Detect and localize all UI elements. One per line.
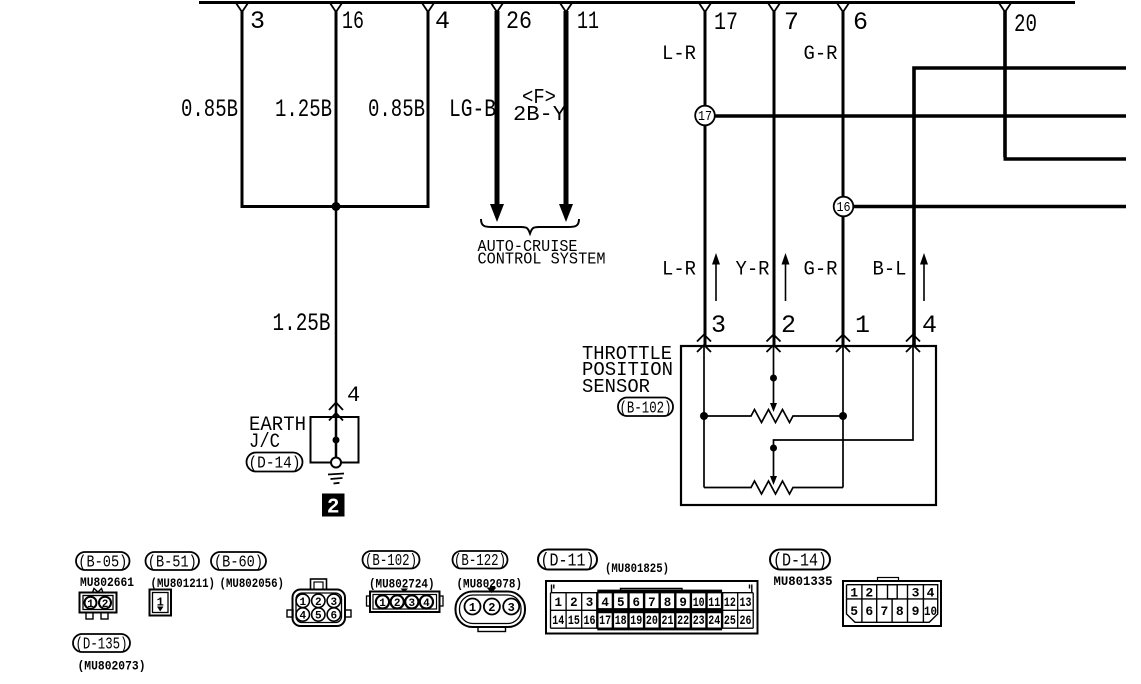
direction arrow wire 3 xyxy=(712,253,720,301)
label L-R (lower) xyxy=(662,259,696,282)
connector view B-51 xyxy=(150,590,172,616)
junction dot pin1-resistor xyxy=(839,412,847,420)
wire B-L from right edge down to sensor pin 4 xyxy=(914,66,1126,346)
wire pin 4 (0.85B) xyxy=(427,11,430,208)
connector fork pin 6 xyxy=(837,3,849,12)
connector fork pin 4 xyxy=(422,3,434,12)
label D-135 stadium xyxy=(73,634,130,655)
text MU801335 xyxy=(774,575,833,589)
label Y-R (lower) xyxy=(736,259,770,282)
text MU802073 xyxy=(78,660,146,674)
text MU801211 xyxy=(151,577,216,591)
svg-text:J/C: J/C xyxy=(249,431,280,454)
svg-text:1: 1 xyxy=(87,599,94,611)
svg-text:3: 3 xyxy=(250,7,265,36)
svg-text:6: 6 xyxy=(865,604,873,619)
label B-51 stadium xyxy=(146,552,200,573)
junction dot at wire 16 xyxy=(332,202,341,211)
svg-text:1: 1 xyxy=(379,598,386,610)
label B-122 stadium xyxy=(453,551,508,571)
label B-60 stadium xyxy=(211,552,266,573)
svg-text:G-R: G-R xyxy=(804,43,838,66)
sensor wire pin 4 to wiper R2 xyxy=(770,346,913,485)
svg-text:2: 2 xyxy=(865,586,873,601)
label D-14 stadium (bottom row) xyxy=(770,550,830,572)
earth terminal circle xyxy=(331,458,341,468)
label L-R (upper) xyxy=(662,43,696,66)
svg-text:Y-R: Y-R xyxy=(736,259,770,282)
svg-text:0.85B: 0.85B xyxy=(368,95,425,124)
svg-text:(B-60): (B-60) xyxy=(214,554,263,573)
svg-text:3: 3 xyxy=(586,596,594,610)
svg-text:5: 5 xyxy=(617,596,625,610)
svg-text:1: 1 xyxy=(555,596,563,610)
svg-text:4: 4 xyxy=(435,7,450,36)
svg-text:7: 7 xyxy=(648,596,656,610)
svg-text:1: 1 xyxy=(469,601,476,615)
svg-text:(B-51): (B-51) xyxy=(148,554,197,573)
svg-text:17: 17 xyxy=(698,110,712,125)
pin numbers D-14 xyxy=(850,586,937,620)
svg-text:MU802661: MU802661 xyxy=(80,576,134,590)
svg-text:7: 7 xyxy=(784,8,799,37)
svg-text:15: 15 xyxy=(568,614,580,628)
svg-text:1: 1 xyxy=(299,597,306,609)
label B-L (lower) xyxy=(873,259,907,282)
svg-text:10: 10 xyxy=(693,596,705,610)
svg-text:3: 3 xyxy=(711,311,726,340)
svg-text:6: 6 xyxy=(853,8,868,37)
sensor wire pin 3 internal xyxy=(703,346,705,488)
svg-text:B-L: B-L xyxy=(873,259,907,282)
arrowhead wire 11 xyxy=(559,204,573,222)
wire pin 17 (L-R) xyxy=(704,11,707,346)
connector chevrons into earth J/C xyxy=(329,403,343,421)
svg-text:6: 6 xyxy=(330,611,337,623)
svg-text:1: 1 xyxy=(855,311,870,340)
svg-text:3: 3 xyxy=(508,601,515,615)
text MU802661 xyxy=(80,576,134,590)
earth J/C box D-14 xyxy=(311,417,359,463)
svg-text:4: 4 xyxy=(347,383,360,408)
bold wire pin 11 (2B-Y) to auto-cruise xyxy=(564,11,569,206)
svg-text:3: 3 xyxy=(912,586,920,601)
text MU802078 xyxy=(457,578,523,592)
circled junction 16 xyxy=(834,197,854,217)
connector view D-11 xyxy=(546,581,758,634)
svg-text:L-R: L-R xyxy=(662,259,696,282)
svg-text:2: 2 xyxy=(327,497,340,520)
direction arrow wire 4 xyxy=(920,253,928,301)
svg-text:(MU802073): (MU802073) xyxy=(78,660,146,674)
svg-text:4: 4 xyxy=(601,596,609,610)
svg-text:10: 10 xyxy=(924,604,937,619)
pin numbers D-11 row 2 xyxy=(552,614,751,628)
sensor pin number 3 xyxy=(711,311,726,340)
svg-text:2: 2 xyxy=(488,601,495,615)
svg-text:(D-14): (D-14) xyxy=(249,455,301,474)
svg-text:24: 24 xyxy=(708,614,720,628)
svg-text:4: 4 xyxy=(927,586,935,601)
text POSITION xyxy=(582,359,673,381)
svg-text:17: 17 xyxy=(599,614,611,628)
svg-text:2: 2 xyxy=(315,597,322,609)
svg-text:4: 4 xyxy=(299,611,306,623)
label 1.25B (earth wire) xyxy=(273,309,331,338)
svg-text:(B-102): (B-102) xyxy=(620,400,672,419)
top bus wire xyxy=(199,1,1075,4)
label B-102 stadium (bottom row) xyxy=(363,551,420,571)
sensor pin number 2 xyxy=(781,311,796,340)
sheet marker 2 xyxy=(322,494,345,520)
svg-text:(MU802056): (MU802056) xyxy=(220,577,285,591)
svg-text:13: 13 xyxy=(740,596,752,610)
svg-text:9: 9 xyxy=(912,604,920,619)
svg-text:26: 26 xyxy=(740,614,752,628)
svg-text:1.25B: 1.25B xyxy=(273,309,331,338)
connector fork pin 17 xyxy=(699,3,711,12)
svg-text:14: 14 xyxy=(552,614,564,628)
connector chevrons sensor pin 2 xyxy=(767,335,781,353)
svg-text:G-R: G-R xyxy=(804,259,838,282)
sensor pin number 1 xyxy=(855,311,870,340)
wire 16 down to earth J/C xyxy=(335,207,338,460)
resistor R2 (idle track) xyxy=(704,481,843,494)
label G-R (lower) xyxy=(804,259,838,282)
svg-text:22: 22 xyxy=(677,614,689,628)
arrowhead wire 26 xyxy=(490,204,504,222)
pin number 6 xyxy=(853,8,868,37)
connector fork pin 7 xyxy=(768,3,780,12)
pin number 11 xyxy=(577,7,599,36)
direction arrow wire 2 xyxy=(782,253,790,301)
connector fork pin 16 xyxy=(330,3,342,12)
connector view B-05 xyxy=(80,589,117,620)
pin number 16 xyxy=(342,7,364,36)
brace auto-cruise xyxy=(481,219,579,234)
svg-text:2: 2 xyxy=(394,598,401,610)
wire pin 6 (G-R) xyxy=(842,11,845,346)
label G-R (upper) xyxy=(804,43,838,66)
svg-text:4: 4 xyxy=(922,311,937,340)
svg-text:19: 19 xyxy=(630,614,642,628)
text J/C xyxy=(249,431,280,454)
connector chevrons sensor pin 4 xyxy=(906,335,920,353)
sensor wire pin 2 wiper xyxy=(770,346,777,412)
svg-text:6: 6 xyxy=(633,596,641,610)
svg-text:(B-122): (B-122) xyxy=(454,552,506,571)
svg-text:11: 11 xyxy=(577,7,599,36)
label B-102 stadium xyxy=(618,398,673,419)
svg-text:5: 5 xyxy=(315,611,322,623)
wire from circle 17 to right edge xyxy=(714,114,1126,118)
bold wire pin 26 (LG-B) to auto-cruise xyxy=(495,11,500,206)
circled junction 17 xyxy=(695,106,715,126)
throttle position sensor box B-102 xyxy=(681,346,936,505)
svg-text:17: 17 xyxy=(714,8,738,37)
pin numbers D-11 row 1 xyxy=(555,596,752,610)
svg-text:16: 16 xyxy=(342,7,364,36)
svg-text:2B-Y: 2B-Y xyxy=(513,104,566,127)
svg-text:0.85B: 0.85B xyxy=(181,95,238,124)
pin number 20 xyxy=(1014,10,1037,39)
connector view D-14 xyxy=(843,578,941,627)
wire from circle 16 to right edge xyxy=(852,205,1126,209)
svg-text:16: 16 xyxy=(837,201,851,216)
label F flag xyxy=(522,87,556,110)
svg-text:25: 25 xyxy=(724,614,736,628)
pin number 26 xyxy=(506,7,532,36)
resistor R1 (potentiometer track) xyxy=(704,410,843,423)
svg-text:SENSOR: SENSOR xyxy=(582,376,650,398)
svg-text:1: 1 xyxy=(850,586,858,601)
svg-text:5: 5 xyxy=(850,604,858,619)
svg-text:L-R: L-R xyxy=(662,43,696,66)
svg-text:LG-B: LG-B xyxy=(449,95,496,124)
svg-text:(D-135): (D-135) xyxy=(76,636,128,655)
label 0.85B xyxy=(181,95,238,124)
junction dot inside earth J/C xyxy=(333,437,340,444)
wire joining bus 3-16-4 xyxy=(241,205,430,208)
connector chevrons sensor pin 3 xyxy=(697,335,711,353)
svg-text:(B-05): (B-05) xyxy=(78,554,127,573)
label D-11 stadium xyxy=(538,550,597,572)
text AUTO-CRUISE xyxy=(478,238,578,257)
connector fork pin 11 xyxy=(560,3,572,12)
connector view B-122 xyxy=(456,588,526,632)
sensor pin number 4 xyxy=(922,311,937,340)
svg-text:(MU801825): (MU801825) xyxy=(605,562,669,576)
label B-05 stadium xyxy=(76,552,130,573)
svg-text:3: 3 xyxy=(408,598,415,610)
svg-text:20: 20 xyxy=(646,614,658,628)
svg-text:CONTROL SYSTEM: CONTROL SYSTEM xyxy=(478,251,606,270)
svg-text:(B-102): (B-102) xyxy=(365,552,417,571)
svg-text:(D-11): (D-11) xyxy=(541,552,595,572)
svg-text:12: 12 xyxy=(724,596,736,610)
pin number 3 xyxy=(250,7,265,36)
wire pin 16 (1.25B) xyxy=(335,11,338,207)
svg-text:2: 2 xyxy=(102,599,109,611)
svg-text:1.25B: 1.25B xyxy=(275,95,332,124)
text MU802056 xyxy=(220,577,285,591)
svg-text:23: 23 xyxy=(693,614,705,628)
text MU801825 xyxy=(605,562,669,576)
text CONTROL SYSTEM xyxy=(478,251,606,270)
connector fork pin 26 xyxy=(491,3,503,12)
svg-text:20: 20 xyxy=(1014,10,1037,39)
pin number 17 xyxy=(714,8,738,37)
svg-text:26: 26 xyxy=(506,7,532,36)
connector view B-60 xyxy=(287,579,351,626)
label LG-B xyxy=(449,95,496,124)
pin number 4 (earth J/C) xyxy=(347,383,360,408)
svg-text:4: 4 xyxy=(423,598,430,610)
junction dot pin3-resistor xyxy=(700,412,708,420)
svg-text:8: 8 xyxy=(896,604,904,619)
svg-text:2: 2 xyxy=(781,311,796,340)
wire pin 7 (Y-R) xyxy=(773,11,776,346)
sensor wire pin 1 internal xyxy=(842,346,844,488)
text EARTH xyxy=(249,414,306,437)
wire pin 20 to right edge xyxy=(1004,11,1127,159)
ground symbol xyxy=(328,474,344,484)
svg-text:9: 9 xyxy=(679,596,687,610)
text SENSOR xyxy=(582,376,650,398)
connector fork pin 3 xyxy=(236,3,248,12)
wire pin 3 (0.85B) xyxy=(241,11,244,208)
pin number 4 xyxy=(435,7,450,36)
svg-text:7: 7 xyxy=(880,604,888,619)
connector fork pin 20 xyxy=(999,3,1011,12)
label 0.85B (second) xyxy=(368,95,425,124)
label 1.25B xyxy=(275,95,332,124)
label 2B-Y xyxy=(513,104,566,127)
pin number 7 xyxy=(784,8,799,37)
svg-text:MU801335: MU801335 xyxy=(774,575,833,589)
text MU802724 xyxy=(369,578,435,592)
svg-text:(D-14): (D-14) xyxy=(773,552,827,572)
svg-text:8: 8 xyxy=(664,596,672,610)
svg-text:21: 21 xyxy=(662,614,674,628)
text THROTTLE xyxy=(582,343,672,365)
connector view B-102 xyxy=(367,589,444,613)
connector chevrons sensor pin 1 xyxy=(836,335,850,353)
label D-14 stadium xyxy=(247,453,303,474)
svg-text:11: 11 xyxy=(708,596,720,610)
svg-text:3: 3 xyxy=(330,597,337,609)
svg-text:2: 2 xyxy=(570,596,578,610)
svg-text:18: 18 xyxy=(615,614,627,628)
svg-text:16: 16 xyxy=(584,614,596,628)
